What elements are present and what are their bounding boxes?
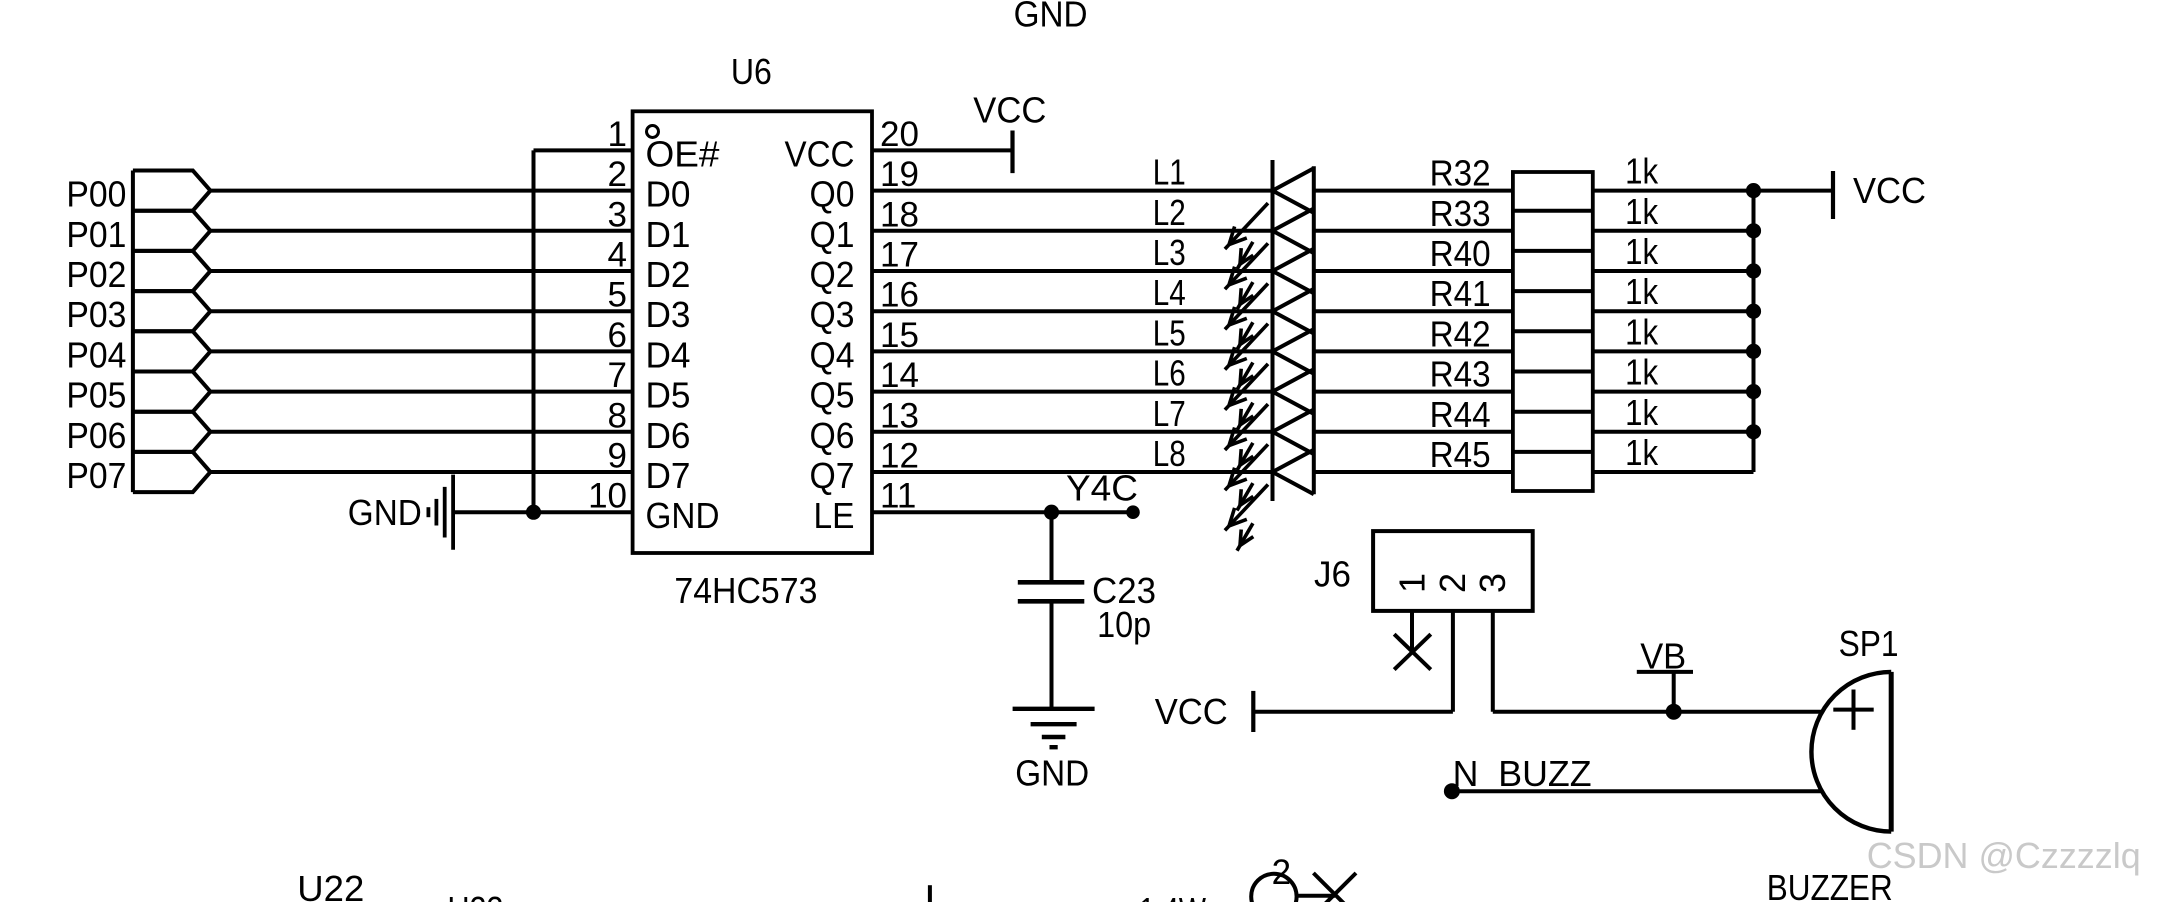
ground symbol (rotated, at pin 10) bbox=[428, 475, 453, 550]
svg-text:10p: 10p bbox=[1097, 604, 1151, 645]
svg-text:GND: GND bbox=[1015, 753, 1089, 794]
svg-text:SP1: SP1 bbox=[1839, 623, 1899, 664]
svg-text:Q7: Q7 bbox=[810, 455, 855, 496]
port P01 connector symbol bbox=[133, 211, 211, 251]
svg-text:11: 11 bbox=[880, 477, 916, 516]
svg-text:8: 8 bbox=[608, 396, 627, 435]
svg-text:L2: L2 bbox=[1153, 192, 1186, 233]
U22 designator (partial) bbox=[297, 868, 364, 902]
svg-text:D3: D3 bbox=[646, 294, 691, 335]
U6 pin number 20 bbox=[880, 115, 919, 154]
U6 right pin label Q7 bbox=[810, 455, 855, 496]
svg-text:1 4W: 1 4W bbox=[1139, 890, 1206, 902]
svg-text:7: 7 bbox=[608, 356, 627, 395]
wire R32 to VCC bus bbox=[1593, 189, 1754, 193]
svg-text:10: 10 bbox=[588, 477, 627, 516]
svg-text:Y4C: Y4C bbox=[1066, 467, 1138, 508]
svg-text:Q5: Q5 bbox=[810, 375, 855, 416]
net stub end dot Y4C bbox=[1126, 505, 1140, 519]
svg-text:1k: 1k bbox=[1625, 151, 1659, 192]
wire LE to C23 bbox=[1050, 512, 1054, 582]
svg-text:6: 6 bbox=[608, 316, 627, 355]
value label 1k (R32) bbox=[1625, 151, 1659, 192]
LED L5 bbox=[1225, 329, 1314, 430]
svg-text:9: 9 bbox=[608, 437, 627, 476]
svg-text:19: 19 bbox=[880, 155, 919, 194]
LED L2 bbox=[1225, 209, 1314, 310]
port label P00 bbox=[66, 174, 126, 215]
svg-text:1: 1 bbox=[1392, 573, 1433, 593]
VCC bus vertical bbox=[1752, 191, 1756, 472]
svg-text:18: 18 bbox=[880, 195, 919, 234]
net label VB bbox=[1640, 635, 1686, 676]
svg-text:1k: 1k bbox=[1625, 392, 1659, 433]
wire OE# to pin 1 bbox=[534, 148, 633, 152]
wire P06 to D6 bbox=[210, 430, 632, 434]
port label P04 bbox=[66, 334, 126, 375]
port P02 connector symbol bbox=[133, 251, 211, 291]
U6 pin number 6 bbox=[608, 316, 627, 355]
U6 right pin label Q6 bbox=[810, 415, 855, 456]
svg-text:GND: GND bbox=[1014, 0, 1088, 35]
LED label L6 bbox=[1153, 353, 1186, 394]
LED L1 bbox=[1225, 168, 1314, 269]
VB stub bbox=[1672, 672, 1676, 712]
U6 right pin label Q1 bbox=[810, 214, 855, 255]
svg-text:R44: R44 bbox=[1430, 394, 1491, 435]
svg-text:R43: R43 bbox=[1430, 354, 1491, 395]
wire Q3 to LED L4 bbox=[872, 309, 1273, 313]
port label P03 bbox=[66, 294, 126, 335]
VCC power bar (pin 20) bbox=[1010, 131, 1014, 174]
svg-text:13: 13 bbox=[880, 396, 919, 435]
svg-text:P03: P03 bbox=[66, 294, 126, 335]
resistor network cell dividers bbox=[1513, 211, 1593, 452]
svg-text:5: 5 bbox=[608, 276, 627, 315]
capacitor C23 bbox=[1018, 582, 1085, 601]
port P07 connector symbol bbox=[133, 452, 211, 492]
svg-text:20: 20 bbox=[880, 115, 919, 154]
U6 pin number 19 bbox=[880, 155, 919, 194]
U6 pin number 3 bbox=[608, 195, 627, 234]
svg-text:Q2: Q2 bbox=[810, 254, 855, 295]
svg-text:L6: L6 bbox=[1153, 353, 1186, 394]
wire pin 20 to VCC bbox=[872, 148, 1013, 152]
ground symbol (below C23) bbox=[1013, 709, 1095, 747]
svg-text:Q3: Q3 bbox=[810, 294, 855, 335]
wire L7 to R44 bbox=[1314, 430, 1513, 434]
value label 1k (R33) bbox=[1625, 191, 1659, 232]
wire pin 11 LE to Y4C bbox=[872, 510, 1133, 514]
wire R33 to VCC bus bbox=[1593, 229, 1754, 233]
port P03 connector symbol bbox=[133, 291, 211, 331]
wire Q2 to LED L3 bbox=[872, 269, 1273, 273]
port P04 connector symbol bbox=[133, 331, 211, 371]
svg-text:R42: R42 bbox=[1430, 313, 1491, 354]
C23 designator bbox=[1092, 570, 1156, 611]
U6 right pin label VCC bbox=[785, 133, 855, 174]
svg-text:Q0: Q0 bbox=[810, 174, 855, 215]
J6 pin number 3 (rotated) bbox=[1472, 573, 1513, 593]
svg-text:D7: D7 bbox=[646, 455, 691, 496]
svg-text:12: 12 bbox=[880, 437, 919, 476]
U6 left pin label D3 bbox=[646, 294, 691, 335]
svg-text:N_BUZZ: N_BUZZ bbox=[1453, 753, 1592, 794]
U6 left pin label GND bbox=[646, 495, 720, 536]
LED L7 bbox=[1225, 410, 1314, 511]
LED L4 bbox=[1225, 289, 1314, 390]
svg-text:VB: VB bbox=[1640, 635, 1686, 676]
wire Q0 to LED L1 bbox=[872, 189, 1273, 193]
svg-text:1k: 1k bbox=[1625, 231, 1659, 272]
C23 value 10p bbox=[1097, 604, 1151, 645]
resistor label R43 bbox=[1430, 354, 1491, 395]
svg-text:P06: P06 bbox=[66, 415, 126, 456]
svg-text:R33: R33 bbox=[1430, 193, 1491, 234]
svg-text:P02: P02 bbox=[66, 254, 126, 295]
pin 2 bubble (bottom symbol) bbox=[1251, 874, 1296, 902]
U6 left pin label D1 bbox=[646, 214, 691, 255]
wire VCC to J6 pin 2 bbox=[1253, 710, 1453, 714]
resistor label R45 bbox=[1430, 434, 1491, 475]
VCC label (pin 20) bbox=[973, 90, 1046, 131]
wire stub bottom (U22 area) bbox=[928, 885, 932, 902]
LED L8 bbox=[1225, 450, 1314, 551]
wire R44 to VCC bus bbox=[1593, 430, 1754, 434]
SP1 designator bbox=[1839, 623, 1899, 664]
port connector stack left edge bbox=[131, 171, 135, 493]
svg-text:L7: L7 bbox=[1153, 393, 1186, 434]
resistor label R42 bbox=[1430, 313, 1491, 354]
svg-text:D5: D5 bbox=[646, 375, 691, 416]
svg-text:U23: U23 bbox=[448, 889, 504, 902]
BUZZER label bbox=[1767, 867, 1893, 902]
VCC bus junction dots bbox=[1746, 183, 1761, 439]
svg-text:Q1: Q1 bbox=[810, 214, 855, 255]
LED L3 bbox=[1225, 249, 1314, 350]
wire R45 to VCC bus bbox=[1593, 470, 1754, 474]
svg-text:1k: 1k bbox=[1625, 432, 1659, 473]
svg-text:P05: P05 bbox=[66, 375, 126, 416]
net stub dot N_BUZZ bbox=[1444, 783, 1460, 799]
svg-text:VCC: VCC bbox=[973, 90, 1046, 131]
port label P07 bbox=[66, 455, 126, 496]
wire P00 to D0 bbox=[210, 189, 632, 193]
value label 1k (R43) bbox=[1625, 352, 1659, 393]
wire R40 to VCC bus bbox=[1593, 269, 1754, 273]
wire P02 to D2 bbox=[210, 269, 632, 273]
U6 pin number 15 bbox=[880, 316, 919, 355]
U6 designator bbox=[731, 51, 772, 92]
J6 pin 1 stub bbox=[1410, 611, 1414, 650]
svg-text:1: 1 bbox=[608, 115, 627, 154]
U6 pin number 8 bbox=[608, 396, 627, 435]
LED label L8 bbox=[1153, 433, 1186, 474]
svg-text:L3: L3 bbox=[1153, 232, 1186, 273]
U6 right pin label Q5 bbox=[810, 375, 855, 416]
U6 left pin label D5 bbox=[646, 375, 691, 416]
svg-text:D6: D6 bbox=[646, 415, 691, 456]
U6 right pin label LE bbox=[814, 495, 855, 536]
U6 pin number 11 bbox=[880, 477, 916, 516]
wire OE# vertical bbox=[532, 150, 536, 512]
wire R41 to VCC bus bbox=[1593, 309, 1754, 313]
buzzer SP1 symbol bbox=[1811, 672, 1891, 832]
wire R43 to VCC bus bbox=[1593, 390, 1754, 394]
LED label L4 bbox=[1153, 272, 1186, 313]
wire L4 to R41 bbox=[1314, 309, 1513, 313]
U6 pin number 16 bbox=[880, 276, 919, 315]
svg-text:74HC573: 74HC573 bbox=[674, 570, 817, 611]
U6 right pin label Q3 bbox=[810, 294, 855, 335]
J6 pin number 2 (rotated) bbox=[1432, 573, 1473, 593]
LED label L7 bbox=[1153, 393, 1186, 434]
U6 pin number 9 bbox=[608, 437, 627, 476]
wire P03 to D3 bbox=[210, 309, 632, 313]
svg-text:R41: R41 bbox=[1430, 273, 1491, 314]
svg-text:J6: J6 bbox=[1314, 554, 1351, 595]
wire J6 pin 3 to buzzer + bbox=[1493, 710, 1823, 714]
resistor label R41 bbox=[1430, 273, 1491, 314]
LED L6 bbox=[1225, 369, 1314, 470]
J6 pin number 1 (rotated) bbox=[1392, 573, 1433, 593]
svg-text:P00: P00 bbox=[66, 174, 126, 215]
svg-text:R32: R32 bbox=[1430, 153, 1491, 194]
net label GND (top) bbox=[1014, 0, 1088, 35]
svg-text:1k: 1k bbox=[1625, 271, 1659, 312]
wire P07 to D7 bbox=[210, 470, 632, 474]
svg-text:4: 4 bbox=[608, 236, 627, 275]
wire P05 to D5 bbox=[210, 390, 632, 394]
svg-text:GND: GND bbox=[348, 492, 422, 533]
wire L6 to R43 bbox=[1314, 390, 1513, 394]
svg-text:U6: U6 bbox=[731, 51, 772, 92]
resistor label R33 bbox=[1430, 193, 1491, 234]
net label N_BUZZ bbox=[1453, 753, 1592, 794]
U6 pin number 12 bbox=[880, 437, 919, 476]
GND label (below C23) bbox=[1015, 753, 1089, 794]
svg-text:GND: GND bbox=[646, 495, 720, 536]
junction OE#/GND bbox=[526, 505, 541, 520]
U6 left pin label D2 bbox=[646, 254, 691, 295]
svg-text:VCC: VCC bbox=[1853, 170, 1926, 211]
op... IC U6 body bbox=[633, 111, 872, 553]
U6 part number 74HC573 bbox=[674, 570, 817, 611]
wire L5 to R42 bbox=[1314, 349, 1513, 353]
GND label (pin 10) bbox=[348, 492, 422, 533]
svg-text:P07: P07 bbox=[66, 455, 126, 496]
port label P06 bbox=[66, 415, 126, 456]
J6 pin 2 stub bbox=[1451, 611, 1455, 712]
svg-text:D1: D1 bbox=[646, 214, 691, 255]
OE# negation bubble bbox=[647, 126, 659, 138]
wire bus to VCC symbol bbox=[1754, 189, 1834, 193]
pin number 2 (bottom symbol) bbox=[1272, 853, 1291, 892]
svg-text:R45: R45 bbox=[1430, 434, 1491, 475]
svg-text:L5: L5 bbox=[1153, 312, 1186, 353]
svg-text:CSDN @Czzzzlq: CSDN @Czzzzlq bbox=[1867, 835, 2141, 876]
svg-text:OE#: OE# bbox=[646, 133, 721, 174]
VB underline bbox=[1637, 670, 1693, 674]
watermark bbox=[1867, 835, 2141, 876]
svg-text:P01: P01 bbox=[66, 214, 126, 255]
J6 designator bbox=[1314, 554, 1351, 595]
svg-text:2: 2 bbox=[1432, 573, 1473, 593]
wire Q7 to LED L8 bbox=[872, 470, 1273, 474]
wire Q6 to LED L7 bbox=[872, 430, 1273, 434]
U6 pin number 5 bbox=[608, 276, 627, 315]
svg-text:3: 3 bbox=[608, 195, 627, 234]
svg-text:L1: L1 bbox=[1153, 152, 1186, 193]
VCC power bar (right) bbox=[1831, 171, 1835, 219]
wire Q1 to LED L2 bbox=[872, 229, 1273, 233]
value label 1k (R44) bbox=[1625, 392, 1659, 433]
svg-text:1k: 1k bbox=[1625, 352, 1659, 393]
svg-text:1k: 1k bbox=[1625, 191, 1659, 232]
U6 pin number 4 bbox=[608, 236, 627, 275]
wire L1 to R32 bbox=[1314, 189, 1513, 193]
U6 pin number 2 bbox=[608, 155, 627, 194]
wire GND to pin 10 bbox=[453, 510, 632, 514]
svg-text:D4: D4 bbox=[646, 334, 691, 375]
resistor label R40 bbox=[1430, 233, 1491, 274]
wire L8 to R45 bbox=[1314, 470, 1513, 474]
value label 1k (R45) bbox=[1625, 432, 1659, 473]
svg-text:2: 2 bbox=[1272, 853, 1291, 892]
port P06 connector symbol bbox=[133, 412, 211, 452]
value label 1k (R40) bbox=[1625, 231, 1659, 272]
U6 right pin label Q4 bbox=[810, 334, 855, 375]
svg-text:1k: 1k bbox=[1625, 311, 1659, 352]
LED label L3 bbox=[1153, 232, 1186, 273]
U6 left pin label D4 bbox=[646, 334, 691, 375]
wire pin 2 bottom bbox=[1297, 894, 1335, 898]
resistor network body bbox=[1513, 172, 1593, 491]
resistor label R32 bbox=[1430, 153, 1491, 194]
U6 pin number 13 bbox=[880, 396, 919, 435]
VCC label (buzzer) bbox=[1155, 691, 1228, 732]
wire P04 to D4 bbox=[210, 349, 632, 353]
svg-text:P04: P04 bbox=[66, 334, 126, 375]
svg-text:VCC: VCC bbox=[785, 133, 855, 174]
svg-text:R40: R40 bbox=[1430, 233, 1491, 274]
junction VB bbox=[1666, 704, 1682, 720]
svg-text:D0: D0 bbox=[646, 174, 691, 215]
svg-text:L8: L8 bbox=[1153, 433, 1186, 474]
svg-text:D2: D2 bbox=[646, 254, 691, 295]
LED triangle base column bbox=[1312, 166, 1316, 494]
VCC power bar (buzzer) bbox=[1251, 691, 1255, 732]
svg-text:14: 14 bbox=[880, 356, 919, 395]
LED label L5 bbox=[1153, 312, 1186, 353]
net label Y4C bbox=[1066, 467, 1138, 508]
svg-text:3: 3 bbox=[1472, 573, 1513, 593]
port label P05 bbox=[66, 375, 126, 416]
wire L3 to R40 bbox=[1314, 269, 1513, 273]
wire N_BUZZ to buzzer - bbox=[1452, 789, 1822, 793]
U6 pin number 1 bbox=[608, 115, 627, 154]
value label 1k (R42) bbox=[1625, 311, 1659, 352]
LED label L1 bbox=[1153, 152, 1186, 193]
U6 left pin label D6 bbox=[646, 415, 691, 456]
U6 right pin label Q0 bbox=[810, 174, 855, 215]
VCC label (right) bbox=[1853, 170, 1926, 211]
port label P02 bbox=[66, 254, 126, 295]
svg-text:LE: LE bbox=[814, 495, 855, 536]
svg-text:2: 2 bbox=[608, 155, 627, 194]
U6 right pin label Q2 bbox=[810, 254, 855, 295]
U6 pin number 14 bbox=[880, 356, 919, 395]
svg-text:L4: L4 bbox=[1153, 272, 1186, 313]
wire Q4 to LED L5 bbox=[872, 349, 1273, 353]
value label 1 4W (partial) bbox=[1139, 890, 1206, 902]
junction LE/C23 bbox=[1044, 505, 1059, 520]
svg-text:Q6: Q6 bbox=[810, 415, 855, 456]
U23 designator (partial) bbox=[448, 889, 504, 902]
LED label L2 bbox=[1153, 192, 1186, 233]
wire Q5 to LED L6 bbox=[872, 390, 1273, 394]
U6 pin number 17 bbox=[880, 236, 919, 275]
port label P01 bbox=[66, 214, 126, 255]
J6 pin 3 stub bbox=[1491, 611, 1495, 712]
svg-text:Q4: Q4 bbox=[810, 334, 855, 375]
U6 left pin label D0 bbox=[646, 174, 691, 215]
wire C23 to ground bbox=[1050, 601, 1054, 709]
connector J6 body bbox=[1373, 531, 1533, 611]
no-connect X (bottom) bbox=[1313, 873, 1356, 902]
resistor label R44 bbox=[1430, 394, 1491, 435]
svg-text:17: 17 bbox=[880, 236, 919, 275]
svg-text:15: 15 bbox=[880, 316, 919, 355]
no-connect X on J6 pin 1 bbox=[1394, 634, 1431, 669]
svg-text:16: 16 bbox=[880, 276, 919, 315]
U6 left pin label OE# bbox=[646, 133, 721, 174]
wire P01 to D1 bbox=[210, 229, 632, 233]
wire L2 to R33 bbox=[1314, 229, 1513, 233]
LED cathode bar column bbox=[1271, 160, 1275, 501]
svg-text:VCC: VCC bbox=[1155, 691, 1228, 732]
U6 pin number 18 bbox=[880, 195, 919, 234]
port P00 connector symbol bbox=[133, 171, 211, 211]
U6 pin number 10 bbox=[588, 477, 627, 516]
U6 pin number 7 bbox=[608, 356, 627, 395]
U6 left pin label D7 bbox=[646, 455, 691, 496]
wire R42 to VCC bus bbox=[1593, 349, 1754, 353]
value label 1k (R41) bbox=[1625, 271, 1659, 312]
svg-text:U22: U22 bbox=[297, 868, 364, 902]
port P05 connector symbol bbox=[133, 372, 211, 412]
